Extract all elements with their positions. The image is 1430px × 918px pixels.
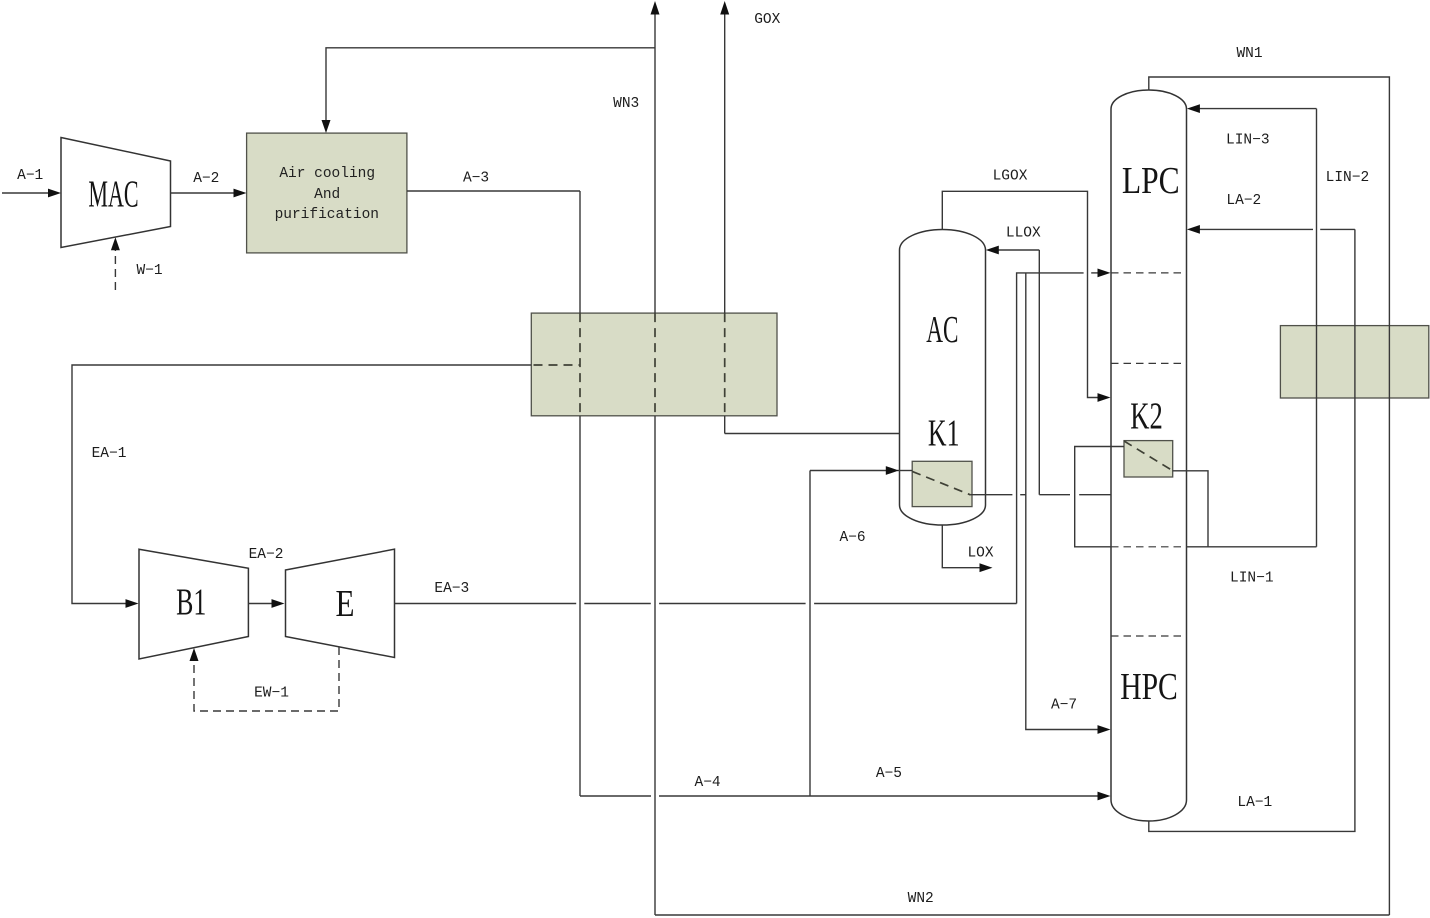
wire LIN-2 riser xyxy=(1316,109,1318,547)
wire A-6 branch to K1 xyxy=(809,471,811,797)
svg-text:GOX: GOX xyxy=(754,12,780,28)
svg-text:LIN−2: LIN−2 xyxy=(1326,170,1370,186)
wire WN1 LPC top to right xyxy=(1149,77,1390,915)
svg-text:AC: AC xyxy=(926,308,958,350)
svg-text:And: And xyxy=(314,187,340,203)
wire A-4 / A-5 to HPC xyxy=(580,795,651,797)
svg-text:E: E xyxy=(335,582,354,625)
wire A-7 to HPC xyxy=(1026,273,1099,730)
wire LIN-1 from column to riser xyxy=(1187,546,1317,548)
wire EA-3 expander outlet xyxy=(395,603,577,605)
tray LPC upper (dashed) xyxy=(1111,272,1187,274)
svg-text:Air cooling: Air cooling xyxy=(279,166,375,182)
air cooling and purification box xyxy=(247,133,407,253)
column AC (capsule) xyxy=(900,230,986,526)
svg-text:WN2: WN2 xyxy=(908,891,934,907)
wire WN3 riser xyxy=(654,14,656,314)
svg-text:HPC: HPC xyxy=(1120,667,1178,708)
svg-text:MAC: MAC xyxy=(88,172,138,215)
svg-text:LIN−3: LIN−3 xyxy=(1226,133,1270,149)
svg-text:A−1: A−1 xyxy=(17,168,43,184)
wire EA-2 booster to expander xyxy=(248,603,272,605)
wire HPC top to K2 xyxy=(1075,447,1124,547)
svg-text:EA−3: EA−3 xyxy=(434,581,469,597)
svg-text:A−6: A−6 xyxy=(839,530,865,546)
expander E (trapezoid) xyxy=(286,549,395,657)
wire W-1 dashed into MAC bottom xyxy=(114,250,116,290)
svg-text:EA−1: EA−1 xyxy=(92,446,127,462)
svg-text:A−7: A−7 xyxy=(1051,698,1077,714)
svg-text:K2: K2 xyxy=(1130,396,1163,438)
svg-text:LLOX: LLOX xyxy=(1006,226,1041,242)
wire LGOX AC top to LPC xyxy=(942,191,1098,397)
condenser K1 (green box in AC) xyxy=(912,461,972,506)
wire A-3 from air cooling box xyxy=(407,190,580,192)
wire GOX from AC xyxy=(725,433,900,435)
tray LPC/HPC boundary (dashed) xyxy=(1111,546,1187,548)
svg-text:LA−1: LA−1 xyxy=(1237,795,1272,811)
wire WN2 bottom xyxy=(655,914,1389,916)
svg-text:WN3: WN3 xyxy=(613,96,639,112)
svg-text:LPC: LPC xyxy=(1122,159,1180,201)
svg-text:LOX: LOX xyxy=(967,546,993,562)
svg-text:A−4: A−4 xyxy=(695,775,721,791)
svg-text:K1: K1 xyxy=(928,413,960,455)
svg-text:A−5: A−5 xyxy=(876,766,902,782)
svg-text:B1: B1 xyxy=(176,582,206,624)
wire EA-1 exchanger tap (dashed inside) xyxy=(534,364,581,366)
wire A-1 into MAC xyxy=(2,192,49,194)
svg-text:LA−2: LA−2 xyxy=(1226,193,1261,209)
condenser K1 diagonal xyxy=(912,471,970,495)
wire GOX riser xyxy=(724,14,726,314)
condenser K2 (green box in LPC) xyxy=(1124,441,1173,477)
tray LPC middle (dashed) xyxy=(1111,362,1187,364)
wire LIN-3 into LPC top xyxy=(1199,108,1316,110)
svg-text:EA−2: EA−2 xyxy=(249,547,284,563)
compressor MAC (trapezoid) xyxy=(61,138,171,248)
wire EA-1 to booster B1 xyxy=(72,365,531,604)
main heat exchanger E1 xyxy=(531,313,777,416)
wire LLOX LPC to AC xyxy=(1079,494,1111,496)
subcooler heat exchanger (right) xyxy=(1280,326,1428,398)
column LPC/HPC (capsule) xyxy=(1111,90,1187,821)
svg-text:A−3: A−3 xyxy=(463,171,489,187)
svg-text:WN1: WN1 xyxy=(1236,46,1262,62)
booster B1 (trapezoid) xyxy=(139,549,248,659)
svg-text:A−2: A−2 xyxy=(193,171,219,187)
wire LOX from AC bottom xyxy=(942,525,980,567)
svg-text:purification: purification xyxy=(275,207,379,223)
wire LA-1 HPC bottom to riser xyxy=(1149,229,1355,831)
wire LA-2 into LPC xyxy=(1320,228,1355,230)
wire EA-3 riser into LPC xyxy=(1017,273,1084,604)
wire WN3 branch to air cooling box xyxy=(326,48,655,121)
wire EW-1 dashed expander to booster xyxy=(194,647,339,711)
svg-text:LGOX: LGOX xyxy=(993,169,1028,185)
svg-text:LIN−1: LIN−1 xyxy=(1230,570,1274,586)
wire K2 outlet xyxy=(1173,471,1209,547)
wire K1 outlet to A-7 line xyxy=(971,494,1013,496)
svg-text:W−1: W−1 xyxy=(136,263,162,279)
tray HPC (dashed) xyxy=(1111,635,1187,637)
condenser K2 diagonal xyxy=(1124,441,1173,471)
svg-text:EW−1: EW−1 xyxy=(254,686,289,702)
wire A-2 MAC to air cooling box xyxy=(171,192,235,194)
